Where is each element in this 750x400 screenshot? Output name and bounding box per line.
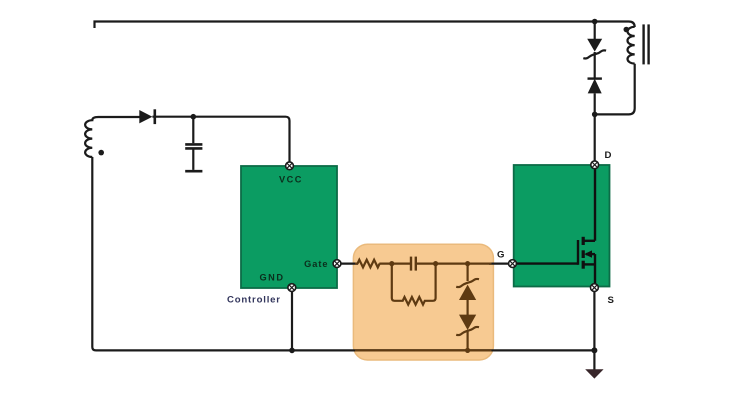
wire node C to zener stack — [467, 264, 469, 281]
wire gate pin to network — [341, 263, 358, 265]
diode D1 vcc rectifier — [139, 109, 193, 124]
svg-text:S: S — [608, 295, 615, 306]
ground — [585, 369, 603, 378]
terminal D — [591, 161, 599, 169]
node zener to rail — [465, 348, 470, 353]
gate network orange box — [353, 244, 493, 360]
label D — [605, 150, 612, 161]
terminal VCC — [286, 162, 294, 170]
label GND — [260, 272, 285, 282]
label S — [608, 295, 615, 306]
aux winding phase dot — [98, 150, 104, 156]
wire network to G terminal — [489, 263, 509, 265]
wire node to ground symbol — [593, 350, 595, 369]
transformer core — [644, 24, 649, 64]
MOSFET Q1 symbol — [517, 168, 596, 284]
brown rail segment inside box — [355, 349, 492, 351]
gate line inside network (brown) — [355, 263, 492, 265]
capacitor C2 parallel — [411, 257, 416, 271]
svg-text:Controller: Controller — [227, 295, 281, 306]
wire controller GND to bottom rail — [291, 288, 293, 350]
label Gate — [304, 259, 328, 269]
wire junction to VCC pin — [193, 117, 289, 162]
zener D5 (cathode up) — [456, 279, 479, 300]
svg-text:VCC: VCC — [279, 174, 303, 184]
resistor R1 series gate — [358, 260, 380, 268]
zener D6 (cathode down) — [456, 300, 479, 351]
controller IC U1 green box — [241, 166, 337, 288]
wire bottom rail right section — [292, 349, 594, 351]
resistor R2 loop — [392, 264, 436, 305]
diode D4 blocking (cathode up) — [588, 52, 602, 114]
terminal Gate — [333, 260, 341, 268]
transformer phase dot — [624, 27, 630, 33]
node source to rail — [591, 347, 597, 353]
node drain junction — [592, 112, 598, 118]
label VCC — [279, 174, 303, 184]
node C — [465, 261, 470, 266]
zener D3 clamp (cathode down) — [583, 22, 606, 59]
terminal G — [509, 260, 517, 268]
node top rail to clamp — [592, 19, 598, 25]
node GND on bottom rail — [289, 348, 295, 354]
aux winding L1 — [85, 117, 139, 157]
MOSFET block Q1 green box — [514, 165, 610, 287]
svg-text:G: G — [497, 250, 504, 261]
terminal GND — [288, 284, 296, 292]
capacitor C1 — [185, 117, 202, 172]
svg-text:Gate: Gate — [304, 259, 328, 269]
node B — [433, 261, 438, 266]
transformer T1 primary winding — [628, 27, 635, 64]
wire top rail — [95, 22, 635, 29]
node A — [389, 261, 394, 266]
terminal S — [591, 284, 599, 292]
svg-text:D: D — [605, 150, 612, 161]
wire drain node to D terminal — [594, 114, 596, 162]
label G — [497, 250, 504, 261]
label Controller — [227, 295, 281, 306]
node vcc cap junction — [191, 114, 197, 120]
wire primary bottom to drain node — [595, 64, 635, 115]
wire aux winding to bottom rail — [92, 157, 292, 350]
svg-text:GND: GND — [260, 272, 285, 282]
wire S terminal to ground node — [593, 291, 595, 350]
